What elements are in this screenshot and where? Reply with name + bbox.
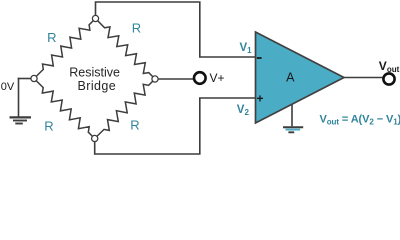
svg-text:R: R <box>44 118 53 133</box>
svg-text:R: R <box>47 30 56 45</box>
svg-text:+: + <box>256 92 263 106</box>
svg-text:0V: 0V <box>1 81 15 93</box>
svg-text:R: R <box>132 21 141 36</box>
svg-text:R: R <box>130 118 139 133</box>
svg-text:Resistive: Resistive <box>69 65 120 79</box>
svg-text:A: A <box>286 71 295 85</box>
svg-text:V+: V+ <box>210 71 225 85</box>
svg-text:Bridge: Bridge <box>78 79 117 93</box>
